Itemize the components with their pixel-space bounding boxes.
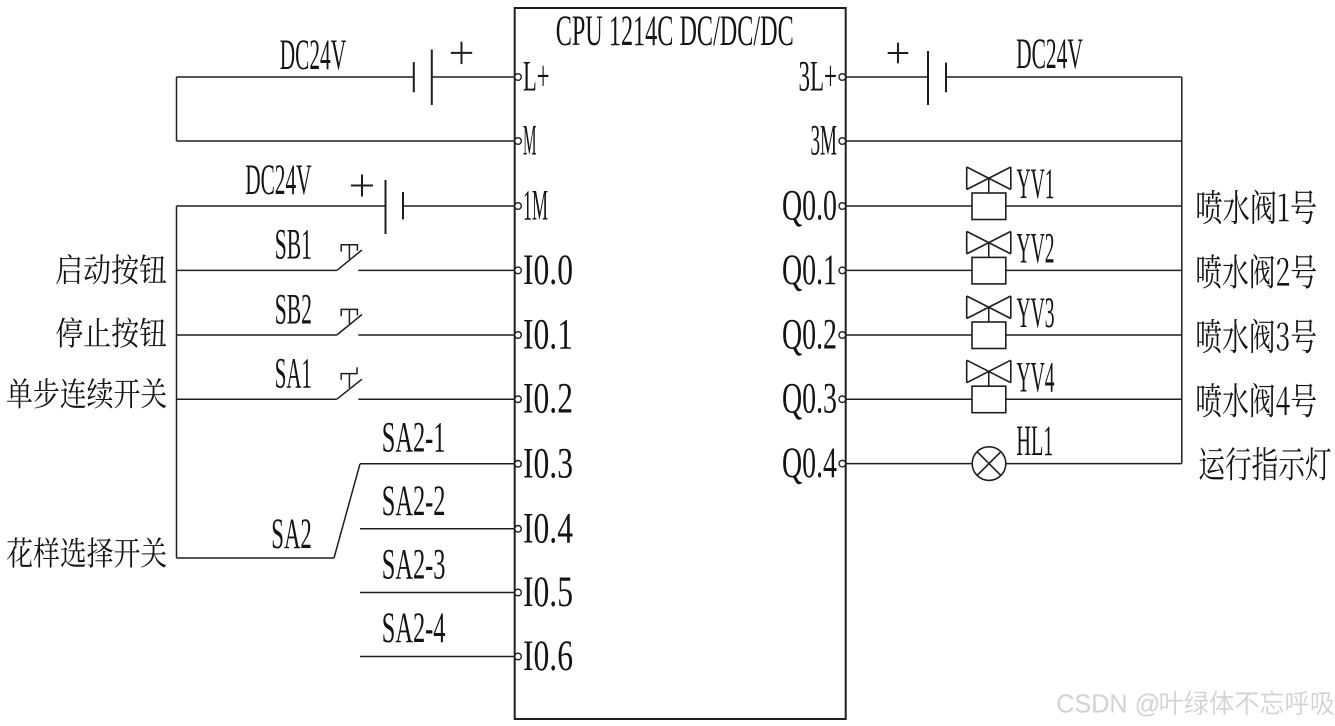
battery GB2 polarity + — [351, 175, 373, 197]
svg-text:I0.1: I0.1 — [523, 312, 573, 359]
svg-text:Q0.4: Q0.4 — [782, 440, 837, 487]
terminal M — [515, 138, 522, 145]
terminal I0.4 — [515, 526, 522, 533]
wire left rail L+ to M — [176, 77, 178, 141]
terminal I0.2 — [515, 396, 522, 403]
svg-text:L+: L+ — [523, 54, 550, 101]
svg-text:SA2-1: SA2-1 — [382, 414, 446, 461]
wire Q0.4 row right segment — [1006, 463, 1182, 465]
wire I0.1 row right segment — [358, 334, 514, 336]
label 单步连续开关 — [7, 378, 166, 408]
indicator lamp HL1 — [972, 447, 1006, 481]
battery GB3 negative plate — [945, 63, 947, 93]
wire I0.3 row (SA2-1 contact) — [360, 463, 515, 465]
battery GB2 negative plate — [402, 192, 404, 219]
pushbutton SB2 (NO contact) — [337, 309, 362, 335]
label 停止按钮 — [56, 317, 166, 347]
battery GB1 polarity + — [451, 42, 472, 64]
svg-text:YV4: YV4 — [1017, 354, 1055, 401]
terminal 3L+ — [839, 74, 846, 81]
wire Q0.0 row left segment — [846, 205, 972, 207]
wire I0.0 row left segment — [177, 269, 337, 271]
wire I0.1 row left segment — [177, 334, 337, 336]
wire M row — [177, 140, 515, 142]
svg-text:SA2-3: SA2-3 — [382, 542, 446, 589]
battery GB2 positive plate — [385, 180, 387, 234]
wire Q0.1 row right segment — [1006, 269, 1182, 271]
svg-text:Q0.0: Q0.0 — [782, 183, 837, 230]
wire Q0.2 row right segment — [1006, 334, 1182, 336]
terminal I0.1 — [515, 332, 522, 339]
wire 1M row right segment — [403, 205, 515, 207]
svg-text:1M: 1M — [523, 183, 548, 230]
svg-text:YV2: YV2 — [1017, 226, 1055, 273]
svg-text:Q0.2: Q0.2 — [782, 312, 837, 359]
svg-text:I0.5: I0.5 — [523, 569, 573, 616]
svg-text:I0.2: I0.2 — [523, 376, 573, 423]
wire 3L+ row right segment — [946, 76, 1182, 78]
svg-text:CSDN @: CSDN @ — [1056, 689, 1160, 719]
battery GB3 polarity + — [888, 43, 909, 64]
terminal I0.6 — [515, 653, 522, 660]
wire 3L+ row left segment — [846, 76, 928, 78]
label 喷水阀4号 — [1197, 383, 1316, 418]
wire Q0.4 row left segment — [846, 463, 973, 465]
wire Q0.3 row left segment — [846, 398, 972, 400]
terminal L+ — [515, 74, 522, 81]
selector switch SA2 blade (diagonal) — [334, 464, 360, 558]
selector switch SA1 (NO contact) — [337, 367, 362, 399]
svg-text:SB2: SB2 — [275, 286, 312, 333]
solenoid valve YV3 — [967, 296, 1011, 349]
battery GB1 positive plate — [431, 50, 433, 106]
wire 3M row — [846, 140, 1182, 142]
wire Q0.0 row right segment — [1006, 205, 1182, 207]
terminal I0.3 — [515, 461, 522, 468]
wire I0.2 row right segment — [358, 398, 514, 400]
svg-text:CPU 1214C DC/DC/DC: CPU 1214C DC/DC/DC — [556, 8, 794, 55]
svg-text:3M: 3M — [811, 118, 838, 165]
terminal Q0.1 — [839, 267, 846, 274]
wire I0.5 row (SA2-3 contact) — [360, 592, 515, 594]
wire L+ row left segment — [177, 76, 414, 78]
wire SA2 common row — [177, 557, 335, 559]
svg-text:HL1: HL1 — [1016, 418, 1053, 465]
svg-text:I0.4: I0.4 — [523, 505, 573, 552]
solenoid valve YV4 — [967, 360, 1011, 413]
terminal 1M — [515, 203, 522, 210]
wire left rail 1M to SA2 — [176, 206, 178, 558]
svg-text:Q0.3: Q0.3 — [782, 376, 837, 423]
solenoid valve YV2 — [967, 231, 1011, 284]
terminal 3M — [839, 138, 846, 145]
svg-text:3L+: 3L+ — [799, 54, 838, 101]
svg-text:SB1: SB1 — [275, 222, 312, 269]
wire right rail 3L+ to Q0.4 — [1181, 77, 1183, 464]
label 喷水阀1号 — [1197, 190, 1315, 225]
terminal Q0.0 — [839, 203, 846, 210]
terminal I0.5 — [515, 589, 522, 596]
svg-text:I0.0: I0.0 — [523, 247, 573, 294]
battery GB1 negative plate — [413, 62, 415, 92]
svg-text:DC24V: DC24V — [1016, 31, 1083, 78]
svg-text:SA2-2: SA2-2 — [382, 478, 446, 525]
terminal I0.0 — [515, 267, 522, 274]
terminal Q0.4 — [839, 460, 846, 467]
pushbutton SB1 (NO contact) — [337, 245, 362, 271]
svg-text:YV3: YV3 — [1017, 290, 1055, 337]
svg-text:Q0.1: Q0.1 — [782, 247, 837, 294]
svg-text:SA2-4: SA2-4 — [382, 605, 446, 652]
wire Q0.3 row right segment — [1006, 398, 1182, 400]
terminal Q0.3 — [839, 396, 846, 403]
terminal Q0.2 — [839, 332, 846, 339]
svg-text:M: M — [523, 118, 537, 165]
wire 1M row left segment — [177, 205, 386, 207]
label 喷水阀3号 — [1197, 319, 1315, 354]
wire L+ row right segment — [432, 76, 515, 78]
svg-text:SA1: SA1 — [275, 351, 312, 398]
solenoid valve YV1 — [967, 167, 1011, 220]
svg-text:I0.3: I0.3 — [523, 440, 573, 487]
label 花样选择开关 — [7, 537, 166, 567]
CPU module U1 box — [515, 8, 846, 719]
wire Q0.1 row left segment — [846, 269, 972, 271]
label 喷水阀2号 — [1197, 254, 1316, 289]
svg-text:SA2: SA2 — [271, 511, 312, 558]
svg-text:DC24V: DC24V — [280, 32, 346, 79]
svg-text:YV1: YV1 — [1017, 161, 1055, 208]
wire I0.0 row right segment — [358, 269, 514, 271]
label 启动按钮 — [56, 254, 166, 284]
svg-text:DC24V: DC24V — [245, 157, 311, 204]
svg-text:I0.6: I0.6 — [523, 633, 573, 680]
label 运行指示灯 — [1199, 447, 1330, 481]
wire Q0.2 row left segment — [846, 334, 972, 336]
wire I0.4 row (SA2-2 contact) — [360, 528, 515, 530]
wire I0.6 row (SA2-4 contact) — [360, 656, 515, 658]
wire I0.2 row left segment — [177, 398, 337, 400]
battery GB3 positive plate — [927, 51, 929, 105]
